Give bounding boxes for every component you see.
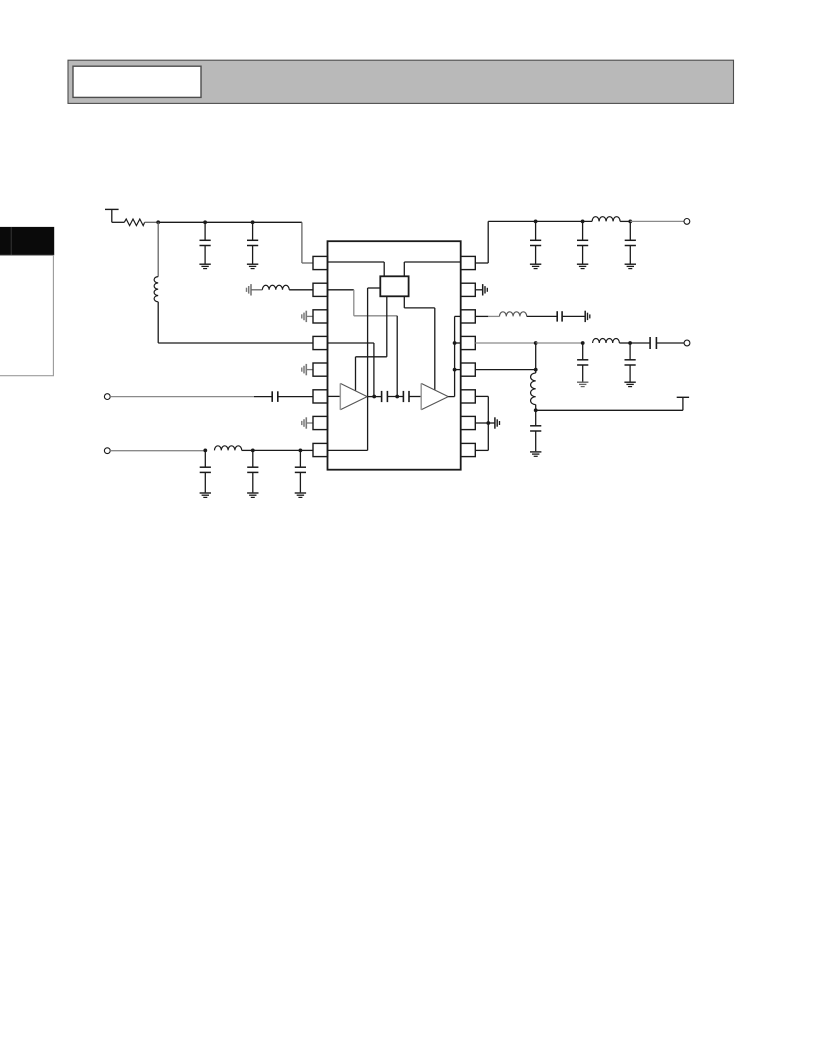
buffer A1: [340, 383, 367, 409]
capacitor C13: [577, 343, 588, 382]
wire C12 to gnd: [562, 315, 585, 317]
side index black tab: [0, 227, 54, 255]
wire pins 11-9 bracket: [487, 396, 489, 450]
wire L6 to node Q: [535, 405, 537, 411]
node M junction: [628, 220, 632, 224]
pin 14 (right): [461, 310, 476, 323]
ground sym C12: [585, 311, 590, 322]
node D junction: [203, 449, 207, 453]
wire M to J3: [630, 220, 684, 222]
wire L7 node E: [242, 449, 253, 451]
ground of C16: [530, 452, 541, 456]
terminal J1: [104, 394, 110, 400]
ground sym at pin 10: [488, 417, 499, 428]
wire pin2 net (gray): [354, 290, 397, 316]
pin 1 (left): [313, 256, 328, 269]
wire V1 to R1: [112, 221, 125, 223]
pin 12 (right): [461, 363, 476, 376]
pin 15 (right): [461, 283, 476, 296]
ground of C1: [199, 264, 210, 268]
wire X1 bottom to A2: [404, 296, 435, 390]
wire bus to pin 12: [455, 369, 461, 371]
node J junction: [453, 368, 457, 372]
pin 2 (left): [313, 283, 328, 296]
capacitor C2: [247, 222, 258, 263]
ground of C13: [577, 382, 588, 386]
node N2 junction: [534, 368, 538, 372]
wire C7 to C8: [387, 396, 403, 398]
inductor L1: [154, 277, 158, 302]
wire A2 out to bus: [448, 316, 460, 396]
IC U1 body: [328, 241, 461, 470]
pin 5 (left): [313, 363, 328, 376]
wire pin11 stub: [475, 395, 488, 397]
capacitor C9: [530, 221, 541, 263]
wire top-left rail: [158, 221, 302, 223]
wire N vertical: [535, 343, 537, 370]
node H junction: [395, 395, 399, 399]
capacitor C1: [200, 222, 211, 263]
capacitor C11: [625, 221, 636, 263]
internal bus X1 to pin16: [404, 262, 460, 276]
pin 4 (left): [313, 336, 328, 349]
wire bus to pin 13: [455, 342, 461, 344]
capacitor C7: [382, 391, 388, 402]
side margin box: [0, 255, 53, 375]
page header bar: [68, 60, 734, 103]
wire gnd to L2 inductor: [251, 289, 262, 291]
buffer A2: [421, 383, 448, 409]
wire X1 left to pin8: [328, 288, 381, 450]
node N junction: [534, 341, 538, 345]
wire pin16 up to rail: [475, 221, 488, 263]
wire L5 to node P: [619, 342, 630, 344]
internal bus pin1 to X1: [328, 262, 385, 276]
node C junction: [251, 220, 255, 224]
wire F to pin 8: [300, 449, 313, 451]
ground of C4: [200, 493, 211, 497]
ground sym at pin 15: [475, 284, 487, 295]
wire P to C15: [630, 342, 650, 344]
resistor R1: [124, 219, 144, 226]
wire X1 bottom to A1: [356, 296, 387, 391]
pin 11 (right): [461, 390, 476, 403]
header logo box: [73, 66, 201, 97]
node F junction: [299, 449, 303, 453]
ground of C5: [247, 493, 258, 497]
ground sym at pin 3 (gray): [302, 311, 313, 322]
wire Q to supply V2: [536, 409, 683, 411]
inductor L7: [215, 446, 242, 451]
ground of C2: [247, 264, 258, 268]
wire E to F: [253, 449, 301, 451]
wire node A down: [157, 222, 159, 276]
wire C3 to pin 6: [278, 396, 313, 398]
wire rail to pin 1: [302, 222, 313, 263]
ground sym at pin 5 (gray): [302, 364, 313, 375]
wire R1 to node A: [145, 221, 159, 223]
capacitor C15: [650, 337, 656, 349]
capacitor C3: [272, 391, 278, 402]
supply V2: [677, 397, 689, 410]
capacitor C6: [295, 450, 306, 492]
terminal J3: [684, 219, 690, 225]
pin 9 (right): [461, 443, 476, 456]
node P junction: [628, 341, 632, 345]
node G junction: [372, 395, 376, 399]
pin 10 (right): [461, 416, 476, 429]
capacitor C14: [625, 343, 636, 382]
node Q junction: [534, 408, 538, 412]
wire L2 to pin 2: [289, 289, 313, 291]
inductor L6: [531, 370, 536, 405]
wire N to O: [536, 342, 583, 344]
node I junction: [453, 341, 457, 345]
node O junction: [581, 341, 585, 345]
wire pin14 to L4: [475, 315, 499, 317]
node L junction: [581, 220, 585, 224]
pin 7 (left): [313, 416, 328, 429]
node R junction: [486, 421, 490, 425]
wire pin4 to node G: [328, 343, 374, 396]
pin 13 (right): [461, 336, 476, 349]
wire pin2 internal: [328, 289, 354, 291]
capacitor C8: [403, 391, 409, 402]
capacitor C5: [247, 450, 258, 492]
capacitor C16: [530, 410, 541, 451]
inductor L5: [593, 338, 620, 343]
node B junction: [203, 220, 207, 224]
wire L1 to pin 4: [158, 302, 313, 343]
wire pin10 stub: [475, 422, 488, 424]
oscillator block X1: [380, 276, 408, 296]
ground of C14: [624, 382, 635, 386]
ground sym at L2 (gray): [247, 284, 252, 295]
wire A1 out: [367, 396, 381, 398]
wire C15 to J4: [657, 342, 685, 344]
wire pin12 to node N: [475, 369, 535, 371]
wire top-right rail: [488, 220, 592, 222]
wire J2 to node D: [110, 450, 205, 452]
node E junction: [251, 449, 255, 453]
pin 6 (left): [313, 390, 328, 403]
inductor L3: [592, 217, 620, 222]
ground of C6: [295, 493, 306, 497]
node A junction: [156, 220, 160, 224]
ground of C11: [625, 264, 636, 268]
node K junction: [534, 220, 538, 224]
pin 16 (right): [461, 256, 476, 269]
wire J1 to C3: [110, 396, 272, 398]
wire net to node H: [396, 316, 398, 397]
inductor L4: [500, 312, 527, 317]
capacitor C12: [557, 311, 562, 321]
pin 8 (left): [313, 443, 328, 456]
wire C8 to A2: [409, 396, 421, 398]
wire L4 to C12: [527, 315, 557, 317]
pin 3 (left): [313, 310, 328, 323]
inductor L2: [262, 285, 289, 290]
capacitor C10: [577, 221, 588, 263]
wire L3 to node M: [620, 220, 630, 222]
wire pin6 to A1 input: [328, 395, 341, 397]
ground of C10: [577, 264, 588, 268]
wire pin9 stub: [475, 449, 488, 451]
ground sym at pin 7 (gray): [302, 417, 313, 428]
terminal J4: [684, 340, 690, 346]
ground of C9: [530, 264, 541, 268]
supply V1: [105, 209, 119, 222]
wire pin13 to node N: [475, 342, 535, 344]
terminal J2: [104, 448, 110, 454]
capacitor C4: [200, 450, 211, 492]
